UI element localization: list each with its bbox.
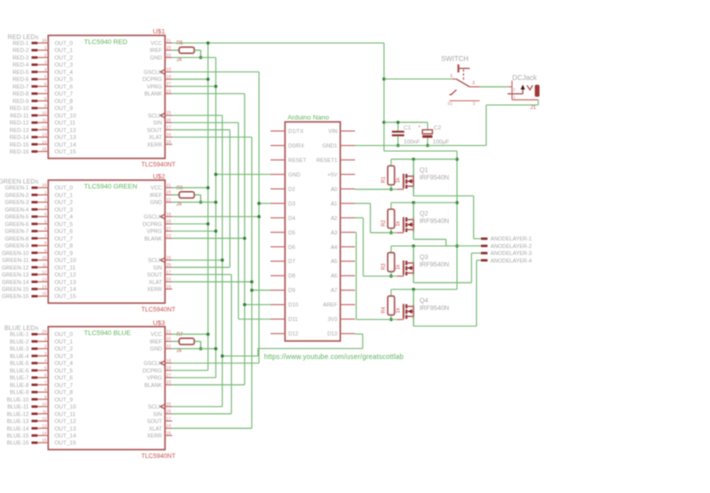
svg-text:OUT_15: OUT_15: [55, 150, 77, 156]
svg-text:R1: R1: [381, 176, 387, 183]
svg-text:R5: R5: [177, 41, 184, 47]
pin D8 of Arduino: [271, 274, 296, 280]
svg-text:GREEN-16: GREEN-16: [2, 294, 29, 300]
svg-text:C2: C2: [434, 126, 441, 132]
svg-text:OUT_9: OUT_9: [55, 397, 73, 403]
svg-text:D10: D10: [288, 303, 298, 309]
pin D1/TX of Arduino: [271, 129, 304, 135]
svg-text:25: 25: [166, 110, 171, 115]
svg-text:A0: A0: [331, 187, 338, 193]
pin D5 of Arduino: [271, 230, 296, 236]
pin VCC of U$1: [151, 38, 173, 47]
pin GREEN-3 connector: [5, 197, 73, 206]
svg-text:OUT_0: OUT_0: [55, 332, 73, 338]
pin IREF of U$3: [150, 336, 172, 345]
svg-text:12: 12: [42, 125, 47, 130]
pin RED-15 connector: [10, 139, 76, 148]
svg-text:D11: D11: [288, 317, 298, 323]
svg-text:SIN: SIN: [153, 121, 162, 127]
svg-text:BLUE-13: BLUE-13: [7, 419, 29, 425]
resistor R3 1k: [381, 244, 457, 277]
svg-text:GND: GND: [150, 56, 162, 62]
IC Arduino Nano box: [285, 122, 340, 341]
svg-text:IREF: IREF: [150, 48, 163, 54]
svg-text:RED-11: RED-11: [10, 113, 29, 119]
svg-text:27: 27: [166, 226, 171, 231]
pin SOUT of U$2: [147, 269, 172, 278]
svg-text:D5: D5: [288, 230, 295, 236]
svg-text:U$3: U$3: [153, 320, 165, 327]
svg-text:OUT_12: OUT_12: [55, 128, 77, 134]
svg-text:GREEN-12: GREEN-12: [2, 265, 29, 271]
pin GREEN-11 connector: [2, 255, 76, 264]
svg-text:18: 18: [166, 211, 171, 216]
svg-text:RED-13: RED-13: [10, 128, 29, 134]
pin ANODELAYER-2 connector: [481, 244, 532, 250]
svg-text:TLC5940 GREEN: TLC5940 GREEN: [84, 184, 137, 191]
wire net VCC trunk and branches: [172, 41, 384, 370]
pin SOUT of U$3: [147, 416, 172, 425]
pin GND of U$3: [150, 344, 172, 353]
pin RESET of Arduino: [271, 158, 307, 164]
pin RED-11 connector: [10, 110, 76, 119]
svg-text:10: 10: [42, 110, 47, 115]
svg-text:GREEN-1: GREEN-1: [5, 186, 29, 192]
transistor Q4 IRF9540N: [397, 289, 450, 326]
svg-text:RED-8: RED-8: [13, 92, 29, 98]
pin RESET1 of Arduino: [316, 158, 355, 164]
svg-text:OUT_2: OUT_2: [55, 200, 73, 206]
pin RED-8 connector: [13, 89, 73, 98]
svg-text:25: 25: [166, 401, 171, 406]
svg-text:BLUE-3: BLUE-3: [10, 347, 29, 353]
svg-text:OUT_3: OUT_3: [55, 207, 73, 213]
pin GREEN-8 connector: [5, 233, 73, 242]
pin RED-2 connector: [13, 45, 73, 54]
svg-text:OUT_10: OUT_10: [55, 405, 77, 411]
svg-text:XLAT: XLAT: [149, 426, 163, 432]
svg-text:DCPRG: DCPRG: [143, 77, 162, 83]
svg-text:GREEN-6: GREEN-6: [5, 222, 29, 228]
svg-text:IREF: IREF: [150, 339, 163, 345]
svg-text:OUT_14: OUT_14: [55, 434, 77, 440]
svg-text:14: 14: [42, 139, 47, 144]
svg-text:OUT_8: OUT_8: [55, 99, 73, 105]
capacitor C2 100uF polarized: [418, 122, 450, 147]
svg-text:16: 16: [166, 139, 171, 144]
svg-text:IREF: IREF: [150, 193, 163, 199]
svg-text:SCLK: SCLK: [148, 258, 162, 264]
svg-text:23: 23: [166, 88, 171, 93]
svg-text:C1: C1: [404, 126, 411, 132]
pin SCLK of U$3: [148, 401, 172, 410]
pin SIN of U$2: [153, 262, 172, 271]
pin GREEN-4 connector: [5, 204, 73, 213]
svg-text:RED LEDs: RED LEDs: [8, 34, 39, 41]
svg-text:GREEN-10: GREEN-10: [2, 251, 29, 257]
svg-text:OUT_3: OUT_3: [55, 63, 73, 69]
svg-text:SWITCH: SWITCH: [441, 56, 469, 63]
pin GND1 of Arduino: [322, 144, 355, 150]
capacitor C1 100nF: [392, 121, 421, 147]
pin VPRG of U$1: [147, 81, 172, 90]
pin A1 of Arduino: [331, 201, 355, 207]
svg-text:20: 20: [166, 336, 171, 341]
svg-text:R7: R7: [177, 332, 184, 338]
pin BLANK of U$3: [144, 380, 172, 389]
svg-text:26: 26: [166, 409, 171, 414]
svg-text:1k: 1k: [395, 221, 401, 227]
svg-text:VIN: VIN: [328, 129, 337, 135]
pin RED-9 connector: [13, 96, 73, 105]
wire net BLANK trunk, branches and D10: [172, 94, 270, 385]
svg-text:22: 22: [166, 197, 171, 202]
svg-text:IRF9540N: IRF9540N: [420, 218, 450, 225]
svg-text:OUT_9: OUT_9: [55, 251, 73, 257]
svg-text:BLUE-15: BLUE-15: [7, 434, 29, 440]
svg-text:OUT_1: OUT_1: [55, 48, 73, 54]
wire net SCLK trunk, branches and D13 link: [172, 115, 363, 406]
svg-text:D9: D9: [288, 288, 295, 294]
svg-text:12: 12: [42, 270, 47, 275]
svg-text:OUT_13: OUT_13: [55, 280, 77, 286]
svg-text:OUT_0: OUT_0: [55, 41, 73, 47]
svg-text:GND1: GND1: [322, 144, 337, 150]
svg-text:100nF: 100nF: [404, 140, 421, 146]
pin BLUE-4 connector: [10, 351, 73, 360]
pin BLUE-1 connector: [10, 329, 73, 338]
svg-text:1k: 1k: [395, 264, 401, 270]
pin A6 of Arduino: [331, 274, 355, 280]
svg-text:XERR: XERR: [147, 434, 162, 440]
pin D4 of Arduino: [271, 216, 296, 222]
pin GREEN-5 connector: [5, 212, 73, 221]
pin VIN of Arduino: [328, 129, 355, 135]
wire net SOUT2 to SIN3: [172, 275, 231, 414]
svg-text:GSCLK: GSCLK: [144, 70, 163, 76]
svg-text:16: 16: [166, 284, 171, 289]
pin SIN of U$1: [153, 117, 172, 126]
svg-text:BLANK: BLANK: [144, 383, 162, 389]
svg-text:BLUE-6: BLUE-6: [10, 368, 29, 374]
svg-text:TLC5940 BLUE: TLC5940 BLUE: [84, 330, 131, 337]
svg-text:20: 20: [166, 45, 171, 50]
svg-text:Arduino Nano: Arduino Nano: [288, 115, 330, 122]
svg-text:OUT_14: OUT_14: [55, 142, 77, 148]
pin GREEN-14 connector: [2, 277, 76, 286]
svg-text:GND: GND: [288, 172, 300, 178]
resistor R6 2k: [172, 185, 202, 207]
svg-text:OUT_9: OUT_9: [55, 106, 73, 112]
pin BLUE-3 connector: [10, 344, 73, 353]
pin A5 of Arduino: [331, 259, 355, 265]
svg-text:26: 26: [166, 262, 171, 267]
pin GREEN-6 connector: [5, 219, 73, 228]
svg-text:BLUE-16: BLUE-16: [7, 441, 29, 447]
pin XERR of U$3: [147, 430, 172, 439]
svg-text:OUT_4: OUT_4: [55, 215, 73, 221]
svg-text:28: 28: [42, 329, 47, 334]
svg-text:BLUE-4: BLUE-4: [10, 354, 29, 360]
svg-text:XERR: XERR: [147, 142, 162, 148]
svg-text:BLUE-5: BLUE-5: [10, 361, 29, 367]
svg-text:+: +: [418, 124, 421, 129]
pin RED-5 connector: [13, 67, 73, 76]
pin GREEN-2 connector: [5, 190, 73, 199]
svg-text:OUT_6: OUT_6: [55, 376, 73, 382]
svg-text:OUT_6: OUT_6: [55, 84, 73, 90]
svg-text:GREEN-8: GREEN-8: [5, 236, 29, 242]
svg-text:11: 11: [42, 262, 47, 267]
svg-text:Q1: Q1: [420, 167, 429, 174]
resistor R5 2k: [172, 41, 202, 63]
svg-text:SOUT: SOUT: [147, 128, 163, 134]
svg-text:23: 23: [166, 380, 171, 385]
svg-text:RED-6: RED-6: [13, 77, 29, 83]
svg-text:GREEN-15: GREEN-15: [2, 287, 29, 293]
pin A0 of Arduino: [331, 187, 355, 193]
resistor R1 1k: [381, 158, 457, 191]
svg-text:OUT_10: OUT_10: [55, 258, 77, 264]
pin ANODELAYER-3 connector: [481, 251, 532, 257]
pin SCLK of U$2: [148, 255, 172, 264]
transistor Q1 IRF9540N: [397, 159, 450, 196]
svg-text:24: 24: [166, 423, 171, 428]
svg-text:19: 19: [166, 219, 171, 224]
wire gate of Q3 from Arduino: [355, 218, 397, 276]
svg-text:RESET: RESET: [288, 158, 307, 164]
switch SWITCH: [441, 56, 480, 106]
pin D10 of Arduino: [271, 303, 299, 309]
svg-text:12: 12: [42, 416, 47, 421]
wire drain of Q4 to ANODELAYER-4: [414, 260, 482, 326]
svg-text:14: 14: [42, 431, 47, 436]
svg-text:1k: 1k: [395, 177, 401, 183]
svg-text:OUT_8: OUT_8: [55, 390, 73, 396]
svg-text:OUT_6: OUT_6: [55, 229, 73, 235]
svg-text:15: 15: [42, 291, 47, 296]
svg-text:21: 21: [166, 329, 171, 334]
svg-text:S1: S1: [448, 101, 454, 106]
pin D13 of Arduino: [327, 332, 355, 338]
svg-text:BLUE LEDs: BLUE LEDs: [4, 325, 38, 332]
svg-text:19: 19: [166, 365, 171, 370]
svg-text:24: 24: [166, 132, 171, 137]
wire net VIN trunk for MOSFET sources: [455, 151, 458, 289]
svg-text:SCLK: SCLK: [148, 113, 162, 119]
pin XLAT of U$2: [149, 277, 172, 286]
connector DCJack J1: [508, 75, 540, 111]
svg-text:OUT_7: OUT_7: [55, 236, 73, 242]
svg-text:RED-14: RED-14: [10, 135, 29, 141]
svg-text:VCC: VCC: [151, 41, 162, 47]
pin A7 of Arduino: [331, 288, 355, 294]
svg-text:OUT_8: OUT_8: [55, 244, 73, 250]
svg-text:SIN: SIN: [153, 412, 162, 418]
pin GND of U$1: [150, 52, 172, 61]
svg-text:18: 18: [166, 358, 171, 363]
pin BLUE-16 connector: [7, 438, 76, 447]
pin RED-3 connector: [13, 53, 73, 62]
svg-text:21: 21: [166, 183, 171, 188]
svg-text:OUT_5: OUT_5: [55, 368, 73, 374]
wire net XLAT trunk, branches and D9: [172, 137, 270, 428]
svg-text:GND: GND: [150, 347, 162, 353]
svg-text:SOUT: SOUT: [147, 273, 163, 279]
pin BLUE-14 connector: [7, 423, 76, 432]
svg-text:3V3: 3V3: [328, 317, 338, 323]
svg-text:VPRG: VPRG: [147, 376, 162, 382]
pin ANODELAYER-1 connector: [481, 237, 532, 243]
pin +5V of Arduino: [328, 172, 355, 178]
svg-text:OUT_11: OUT_11: [55, 412, 76, 418]
pin D2 of Arduino: [271, 187, 296, 193]
svg-text:RESET1: RESET1: [316, 158, 337, 164]
pin GREEN-1 connector: [5, 183, 73, 192]
pin RED-12 connector: [10, 118, 76, 127]
wire gate of Q2 from Arduino: [355, 203, 397, 232]
svg-text:BLUE-8: BLUE-8: [10, 383, 29, 389]
svg-text:GSCLK: GSCLK: [144, 215, 163, 221]
svg-text:RED-4: RED-4: [13, 63, 29, 69]
svg-text:RED-16: RED-16: [10, 150, 29, 156]
svg-text:OUT_11: OUT_11: [55, 121, 76, 127]
pin A3 of Arduino: [331, 230, 355, 236]
svg-text:A4: A4: [331, 245, 338, 251]
pin BLANK of U$2: [144, 233, 172, 242]
svg-text:A2: A2: [331, 216, 338, 222]
svg-text:11: 11: [42, 118, 47, 123]
pin GREEN-13 connector: [2, 270, 76, 279]
svg-text:R3: R3: [381, 263, 387, 270]
pin RED-13 connector: [10, 125, 76, 134]
svg-text:A3: A3: [331, 230, 338, 236]
pin VCC of U$2: [151, 183, 173, 192]
pin GREEN-15 connector: [2, 284, 76, 293]
svg-text:D3: D3: [288, 201, 295, 207]
svg-text:D12: D12: [288, 332, 298, 338]
pin ANODELAYER-4 connector: [481, 258, 532, 264]
pin GND of U$2: [150, 197, 172, 206]
IC U$1 TLC5940 RED box: [48, 35, 165, 158]
svg-text:GREEN-2: GREEN-2: [5, 193, 29, 199]
svg-text:BLUE-2: BLUE-2: [10, 339, 29, 345]
pin DCPRG of U$2: [143, 219, 173, 228]
pin XERR of U$2: [147, 284, 172, 293]
wire drain of Q3 to ANODELAYER-3: [414, 253, 482, 283]
pin RED-7 connector: [13, 81, 73, 90]
svg-text:20: 20: [166, 190, 171, 195]
svg-text:RED-7: RED-7: [13, 84, 29, 90]
svg-text:GREEN-3: GREEN-3: [5, 200, 29, 206]
svg-text:17: 17: [166, 269, 171, 274]
pin VCC of U$3: [151, 329, 173, 338]
pin GSCLK of U$3: [144, 358, 172, 367]
svg-text:BLUE-9: BLUE-9: [10, 390, 29, 396]
svg-text:J1: J1: [530, 105, 536, 111]
svg-text:D4: D4: [288, 216, 295, 222]
svg-text:TLC5940NT: TLC5940NT: [141, 306, 175, 313]
svg-text:DCPRG: DCPRG: [143, 368, 162, 374]
svg-text:VCC: VCC: [151, 186, 162, 192]
wire gate of Q4 from Arduino: [355, 232, 397, 319]
pin RED-10 connector: [10, 103, 73, 112]
svg-text:BLANK: BLANK: [144, 236, 162, 242]
pin D12 of Arduino: [271, 332, 299, 338]
svg-text:OUT_11: OUT_11: [55, 265, 76, 271]
svg-text:R2: R2: [381, 220, 387, 227]
svg-text:RED-12: RED-12: [10, 121, 29, 127]
pin AREF of Arduino: [323, 303, 355, 309]
svg-text:RED-9: RED-9: [13, 99, 29, 105]
pin RED-4 connector: [13, 60, 73, 69]
svg-text:D8: D8: [288, 274, 295, 280]
pin 3V3 of Arduino: [328, 317, 355, 323]
svg-text:TLC5940NT: TLC5940NT: [141, 162, 175, 169]
svg-text:OUT_0: OUT_0: [55, 186, 73, 192]
wire net SOUT1 to SIN2: [172, 130, 230, 267]
svg-text:23: 23: [166, 233, 171, 238]
svg-text:GREEN-7: GREEN-7: [5, 229, 29, 235]
svg-text:27: 27: [166, 372, 171, 377]
svg-text:GSCLK: GSCLK: [144, 361, 163, 367]
svg-text:U$2: U$2: [153, 173, 165, 180]
pin XLAT of U$1: [149, 132, 172, 141]
pin D7 of Arduino: [271, 259, 296, 265]
svg-text:OUT_13: OUT_13: [55, 426, 77, 432]
svg-text:10: 10: [42, 255, 47, 260]
svg-text:21: 21: [166, 38, 171, 43]
svg-text:28: 28: [42, 183, 47, 188]
svg-text:OUT_10: OUT_10: [55, 113, 77, 119]
wire net GSCLK trunk, branches and D3: [172, 72, 270, 363]
svg-text:OUT_4: OUT_4: [55, 70, 73, 76]
svg-text:D0/RX: D0/RX: [288, 144, 304, 150]
svg-text:A7: A7: [331, 288, 338, 294]
svg-text:RED-5: RED-5: [13, 70, 29, 76]
pin DCPRG of U$1: [143, 74, 173, 83]
svg-text:IRF9540N: IRF9540N: [420, 261, 450, 268]
pin GSCLK of U$2: [144, 211, 172, 220]
svg-text:GREEN-13: GREEN-13: [2, 273, 29, 279]
pin BLUE-5 connector: [10, 358, 73, 367]
svg-text:AREF: AREF: [323, 303, 338, 309]
pin SCLK of U$1: [148, 110, 172, 119]
svg-text:https://www.youtube.com/user/g: https://www.youtube.com/user/greatscottl…: [264, 354, 404, 361]
svg-text:10: 10: [42, 402, 47, 407]
svg-text:TLC5940 RED: TLC5940 RED: [84, 39, 128, 46]
svg-text:RED-10: RED-10: [10, 106, 29, 112]
svg-text:D6: D6: [288, 245, 295, 251]
pin BLUE-7 connector: [10, 373, 73, 382]
wire net GND1 rail Arduino GND1 to DC jack and capacitors: [355, 100, 538, 146]
svg-text:IRF9540N: IRF9540N: [420, 305, 450, 312]
svg-text:OUT_7: OUT_7: [55, 92, 73, 98]
svg-text:XLAT: XLAT: [149, 280, 163, 286]
svg-text:OUT_12: OUT_12: [55, 419, 77, 425]
pin BLUE-9 connector: [10, 387, 73, 396]
pin D3 of Arduino: [271, 201, 296, 207]
svg-text:RED-2: RED-2: [13, 48, 29, 54]
svg-text:19: 19: [166, 74, 171, 79]
pin BLUE-12 connector: [7, 409, 76, 418]
wire switch to DC jack: [480, 86, 509, 88]
svg-text:OUT_13: OUT_13: [55, 135, 77, 141]
svg-text:RED-15: RED-15: [10, 142, 29, 148]
svg-text:13: 13: [42, 132, 47, 137]
svg-text:GREEN-11: GREEN-11: [2, 258, 29, 264]
svg-text:1k: 1k: [395, 307, 401, 313]
